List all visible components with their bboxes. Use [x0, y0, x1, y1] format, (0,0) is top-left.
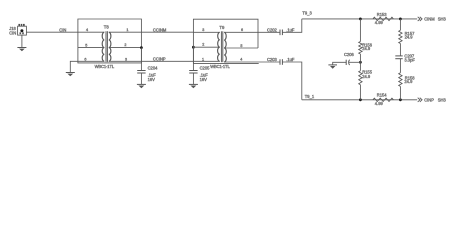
wire T8 pin6 to ground — [70, 61, 78, 72]
node T8 pin2 junction — [140, 46, 143, 49]
svg-text:.1uF: .1uF — [286, 57, 295, 62]
wire C204 to ground — [140, 73, 142, 84]
connector J18 top marks — [18, 24, 24, 26]
wire R155 to bottom rail — [359, 85, 361, 100]
ground (under J18) — [17, 47, 26, 49]
wire C207 to R158 — [399, 59, 401, 73]
bottom rail wire — [302, 99, 417, 101]
wire C202 up to top rail — [282, 19, 301, 32]
svg-text:CCINP: CCINP — [153, 56, 166, 61]
wire R158 to bottom rail — [399, 86, 401, 99]
svg-text:4.99: 4.99 — [375, 20, 384, 25]
T8 pin 4 stub — [78, 31, 104, 33]
node bottom-right junction — [399, 98, 402, 101]
svg-text:16V: 16V — [148, 77, 156, 82]
resistor R155 — [359, 71, 362, 85]
capacitor C207 — [395, 55, 402, 57]
svg-text:5: 5 — [85, 44, 87, 48]
resistor R156 — [359, 42, 362, 55]
T9 pin 6 stub — [224, 31, 258, 33]
off-page arrow CINP — [418, 98, 422, 102]
node bottom-left junction — [359, 98, 362, 101]
svg-text:C204: C204 — [148, 66, 159, 71]
wire top rail to R157 — [399, 19, 401, 30]
T9 primary winding — [218, 32, 220, 61]
T9 pin 1 stub — [193, 60, 219, 62]
svg-text:4: 4 — [240, 57, 242, 61]
capacitor C206 — [345, 60, 347, 65]
transformer T9 box (right edge stops at pin5 row) — [193, 19, 258, 63]
transformer T8 box — [78, 19, 141, 63]
svg-text:3.3pF: 3.3pF — [404, 57, 415, 62]
connector J18 bottom marks — [20, 32, 24, 34]
svg-text:3: 3 — [202, 28, 204, 32]
wire CCINM: T8 pin1 to T9 pin3 — [141, 31, 193, 33]
T8 secondary winding — [109, 32, 111, 61]
T8 pin 6 stub — [78, 60, 104, 62]
wire R157 to C207 — [399, 44, 401, 56]
wire T8 pin2 down to C204 — [140, 48, 142, 71]
svg-text:R154: R154 — [377, 93, 388, 98]
svg-text:.1uF: .1uF — [200, 72, 209, 77]
wire C203 down to bottom rail — [282, 62, 301, 100]
T8 pin 3 stub — [109, 60, 142, 62]
wire C206 to node — [349, 61, 361, 63]
wire CCINP: T8 pin3 to T9 pin1 — [141, 60, 193, 62]
T8 pin 1 stub — [109, 31, 142, 33]
svg-text:24.9: 24.9 — [362, 46, 371, 51]
capacitor C203 — [279, 59, 281, 65]
wire T9 pin6 to C202 — [258, 31, 280, 33]
T9 core lines — [220, 31, 222, 62]
connector J18 — [18, 26, 27, 35]
resistor R158 — [399, 73, 402, 87]
ground (under C205) — [189, 83, 198, 85]
ground (under C204) — [137, 83, 146, 85]
svg-text:C202: C202 — [267, 27, 278, 32]
svg-text:2: 2 — [202, 43, 204, 47]
resistor R154 — [373, 98, 393, 101]
capacitor C205 — [189, 70, 197, 72]
svg-text:3: 3 — [125, 57, 127, 61]
svg-text:1: 1 — [126, 28, 128, 32]
wire R156 to C206 node — [359, 54, 361, 71]
svg-text:5: 5 — [240, 44, 242, 48]
T9 pin 3 stub — [193, 31, 219, 33]
svg-text:CINP: CINP — [424, 97, 434, 102]
svg-text:SH3: SH3 — [438, 97, 447, 102]
wire C206 to ground — [333, 62, 347, 64]
wire T9 pin2 down to C205 — [192, 47, 194, 70]
svg-text:2: 2 — [124, 43, 126, 47]
svg-text:SH3: SH3 — [438, 17, 447, 22]
svg-text:6: 6 — [241, 28, 243, 32]
off-page arrow CINM — [418, 17, 422, 21]
svg-text:WBC1-1TL: WBC1-1TL — [95, 64, 115, 69]
svg-text:T9: T9 — [219, 25, 225, 30]
ground (C206) — [328, 64, 337, 66]
svg-text:6: 6 — [84, 57, 86, 61]
svg-text:CIN: CIN — [59, 27, 66, 32]
svg-text:T9_1: T9_1 — [305, 94, 315, 99]
T8 primary winding — [102, 32, 104, 61]
svg-text:4: 4 — [86, 28, 88, 32]
T8 pin 2 stub (center tap) — [109, 47, 142, 49]
svg-text:R153: R153 — [377, 12, 388, 17]
wire J18 to ground — [21, 35, 23, 47]
svg-text:.1uF: .1uF — [286, 27, 295, 32]
connector J18 center pin dot — [20, 29, 23, 32]
svg-text:CINM: CINM — [424, 17, 435, 22]
wire top rail to R156 — [359, 19, 361, 42]
node top-right junction — [399, 18, 402, 21]
node T9 pin2 junction — [192, 46, 195, 49]
T8 core lines — [105, 31, 107, 62]
wire CIN: J18 to T8 pin 4 — [26, 31, 78, 33]
svg-text:16V: 16V — [200, 77, 208, 82]
svg-text:4.99: 4.99 — [375, 101, 384, 106]
T9 pin 2 stub (center tap) — [193, 46, 219, 48]
ground (under T8 pin 6) — [66, 72, 75, 74]
T8 pin 5 stub (center tap) — [78, 47, 104, 49]
T9 pin 5 stub (center tap) — [224, 47, 258, 49]
wire C205 to ground — [192, 73, 194, 84]
svg-text:C205: C205 — [200, 66, 211, 71]
svg-text:T8: T8 — [104, 25, 110, 30]
svg-text:24.9: 24.9 — [405, 34, 414, 39]
svg-text:CCINM: CCINM — [153, 27, 167, 32]
node top-left junction — [359, 18, 362, 21]
capacitor C202 — [279, 30, 281, 36]
svg-text:C206: C206 — [344, 52, 355, 57]
T9 pin 4 stub — [224, 61, 258, 63]
top rail wire — [302, 18, 417, 20]
wire T9 pin4 to C203 — [258, 61, 280, 63]
svg-text:.1uF: .1uF — [148, 72, 157, 77]
svg-text:CIN: CIN — [9, 30, 16, 35]
resistor R157 — [399, 30, 402, 43]
T9 secondary winding — [224, 32, 226, 62]
svg-text:WBC1-1TL: WBC1-1TL — [210, 64, 230, 69]
node C206 junction — [359, 61, 362, 64]
svg-text:1: 1 — [202, 57, 204, 61]
svg-text:C203: C203 — [267, 57, 278, 62]
capacitor C204 — [137, 70, 145, 72]
svg-text:24.9: 24.9 — [404, 79, 413, 84]
svg-text:24.9: 24.9 — [362, 74, 371, 79]
resistor R153 — [373, 17, 393, 20]
svg-text:T9_3: T9_3 — [302, 11, 312, 16]
